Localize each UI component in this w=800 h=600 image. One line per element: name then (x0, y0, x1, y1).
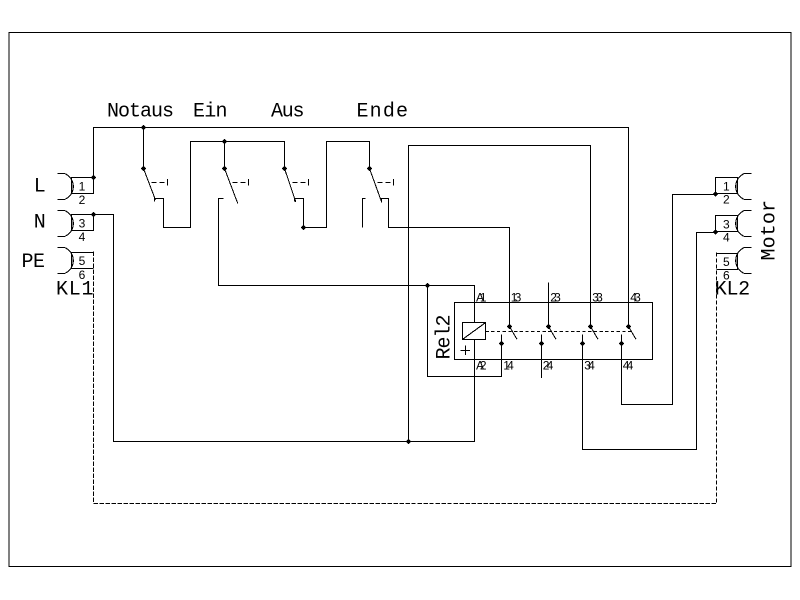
svg-text:2: 2 (723, 193, 730, 207)
terminal KL1:1/2 (L) (58, 174, 94, 200)
contact 13/14 (510, 327, 518, 340)
wire Ende out: right at bottom, down to relay pin 13 (389, 199, 510, 327)
wire contact 24 stub (541, 335, 543, 378)
svg-text:14: 14 (503, 359, 514, 373)
junction top rail / Notaus (141, 125, 147, 131)
wire L feed: terminal L up, along top, down to relay pin 43 (94, 128, 629, 327)
svg-text:PE: PE (22, 251, 46, 274)
svg-text:5: 5 (79, 254, 86, 268)
svg-text:33: 33 (592, 290, 603, 304)
mechanical linkage dashed (486, 331, 632, 333)
contact 33/34 (591, 327, 599, 340)
switch S3 Aus (NC pushbutton) (285, 169, 309, 202)
relay K1 outline box (455, 303, 653, 360)
svg-text:13: 13 (511, 290, 522, 304)
wire self-hold: node down, right, up to contact 14 (428, 286, 502, 377)
wire N feed: terminal N right, down, right to coil A2 (94, 215, 475, 442)
wire contact 34 to terminal KL2:3 (583, 233, 716, 450)
svg-text:N: N (34, 212, 46, 235)
relay coil Rel2 (463, 323, 486, 340)
wire Aus out: down, right, up to rail, to Ende (304, 142, 370, 228)
svg-text:Ende: Ende (357, 100, 409, 123)
pivot Aus (282, 166, 288, 172)
wire Notaus branch (143, 128, 145, 169)
pivot Ende (367, 166, 373, 172)
svg-text:Rel2: Rel2 (434, 315, 457, 360)
svg-text:Aus: Aus (271, 100, 305, 123)
junction KL2:1 (713, 191, 719, 197)
pivot Notaus (141, 166, 147, 172)
wire contact 44 to terminal KL2:1 (622, 195, 716, 405)
svg-text:KL1: KL1 (56, 279, 94, 302)
junction L terminal (91, 175, 97, 181)
terminal KL2:5/6 (717, 248, 752, 274)
terminal KL2:1/2 (716, 174, 752, 200)
wire relay pin 33 to N rail (409, 146, 591, 442)
fixed contact 14 (499, 341, 505, 347)
fixed contact 34 (580, 341, 586, 347)
fixed contact 44 (619, 341, 625, 347)
svg-text:KL2: KL2 (715, 279, 751, 302)
svg-text:Motor: Motor (759, 200, 782, 261)
pivot Ein (222, 166, 228, 172)
svg-text:Ein: Ein (193, 100, 228, 123)
junction N terminal (91, 212, 97, 218)
svg-text:1: 1 (723, 180, 730, 194)
svg-text:3: 3 (79, 216, 86, 230)
svg-text:2: 2 (79, 193, 86, 207)
junction N rail / pin33 wire (406, 439, 412, 445)
svg-text:L: L (34, 175, 46, 198)
wire coil A2 down (474, 340, 476, 442)
svg-text:5: 5 (723, 255, 730, 269)
pivot contact 43 (626, 324, 632, 330)
terminal KL1:3/4 (N) (58, 211, 94, 237)
pivot contact 23 (546, 324, 552, 330)
terminal KL1:5/6 (PE) (58, 248, 94, 274)
wire PE dashed: KL1 PE down, right, up to KL2:5 (94, 252, 717, 504)
svg-text:43: 43 (630, 290, 641, 304)
terminal KL2:3/4 (716, 211, 752, 237)
junction self-hold node (425, 283, 431, 289)
svg-text:Notaus: Notaus (107, 100, 174, 123)
contact 43/44 (629, 327, 637, 340)
junction Aus out corner (301, 225, 307, 231)
svg-text:24: 24 (543, 359, 554, 373)
junction rail / Ein (222, 139, 228, 145)
svg-text:23: 23 (550, 290, 561, 304)
svg-text:34: 34 (584, 359, 595, 373)
svg-text:4: 4 (79, 230, 86, 244)
fixed contact 24 (539, 341, 545, 347)
switch S2 Ein (NO pushbutton) (219, 169, 249, 286)
svg-text:44: 44 (623, 359, 634, 373)
wire Notaus out: down, right, up to rail, to Aus (164, 142, 285, 228)
coil polarity + (461, 346, 471, 356)
pivot contact 33 (588, 324, 594, 330)
svg-text:1: 1 (79, 179, 86, 193)
wire relay pin 23 stub (548, 283, 550, 303)
switch S1 Notaus (NC pushbutton) (144, 169, 168, 202)
svg-text:A1: A1 (476, 290, 487, 304)
pivot contact 13 (507, 324, 513, 330)
contact 23/24 (549, 303, 557, 340)
wire contact 14 lower stub (501, 335, 503, 344)
svg-text:4: 4 (723, 230, 730, 244)
wire Ein branch (224, 142, 226, 169)
junction KL2:3 (713, 229, 719, 235)
switch S4 Ende (limit switch changeover) (363, 169, 394, 228)
svg-text:3: 3 (723, 217, 730, 231)
wire Ein out: down to node, right to coil A1 (219, 286, 475, 323)
svg-text:A2: A2 (476, 359, 487, 373)
